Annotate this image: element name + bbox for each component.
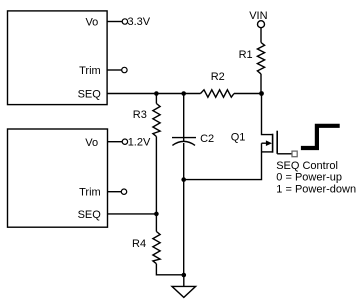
capacitor C2 top plate	[172, 137, 196, 139]
svg-text:Trim: Trim	[79, 187, 101, 199]
wire source node down to ground rail	[183, 180, 185, 275]
wire Vo pin block 1	[107, 21, 122, 23]
svg-text:C2: C2	[200, 133, 214, 145]
label C2	[200, 133, 214, 145]
svg-text:Vo: Vo	[85, 17, 98, 29]
pin label SEQ (block 1)	[78, 89, 102, 101]
label 3.3V	[128, 16, 151, 28]
terminal circle Trim block 1 (open)	[122, 67, 127, 72]
resistor R3 (vertical zigzag)	[153, 104, 160, 137]
terminal circle 3.3V output	[122, 19, 127, 24]
label Q1	[231, 131, 246, 143]
wire SEQ bus from block 1 to R2	[107, 93, 201, 95]
label VIN	[249, 10, 267, 22]
label R4	[132, 238, 146, 250]
svg-text:Q1: Q1	[231, 131, 246, 143]
junction dot node C (R1 / R2 / Q1 drain)	[259, 91, 264, 96]
SEQ control step waveform	[301, 126, 340, 148]
svg-text:R2: R2	[211, 71, 225, 83]
svg-text:1 = Power-down: 1 = Power-down	[276, 183, 356, 195]
terminal circle Trim block 2 (open)	[121, 189, 126, 194]
label R3	[133, 109, 147, 121]
wire Q1 drain (node C down and into channel)	[262, 94, 273, 135]
regulator block 1 (3.3V module)	[8, 11, 108, 105]
pin label Vo (block 2)	[85, 137, 98, 149]
capacitor C2 curved bottom plate	[172, 141, 195, 145]
wire C2 bottom to source node	[183, 143, 185, 180]
junction dot node A (SEQ bus / R3)	[154, 91, 159, 96]
wire node D down to R4	[155, 214, 157, 232]
wire Trim pin block 1	[107, 69, 122, 71]
junction dot node B (SEQ bus / C2)	[181, 91, 186, 96]
svg-text:1.2V: 1.2V	[128, 137, 151, 149]
pin label Vo (block 1)	[85, 17, 98, 29]
svg-text:SEQ Control: SEQ Control	[276, 160, 338, 172]
svg-text:SEQ: SEQ	[78, 209, 102, 221]
svg-text:VIN: VIN	[249, 10, 267, 22]
wire gate to SEQ control terminal	[277, 153, 291, 155]
wire Vo pin block 2	[107, 141, 122, 143]
svg-text:R3: R3	[133, 109, 147, 121]
svg-text:Trim: Trim	[79, 65, 101, 77]
svg-text:Vo: Vo	[85, 137, 98, 149]
wire R1 to drain node	[260, 74, 262, 94]
wire SEQ pin block 2 to divider node	[107, 213, 156, 215]
transistor Q1 channel bar	[272, 134, 274, 153]
svg-text:R4: R4	[132, 238, 146, 250]
label R2	[211, 71, 225, 83]
terminal circle 1.2V output	[122, 139, 127, 144]
regulator block 2 (1.2V module)	[8, 129, 108, 227]
svg-text:3.3V: 3.3V	[128, 16, 151, 28]
junction dot node E (C2 / Q1 source return)	[181, 177, 186, 182]
junction dot node D (block 2 SEQ / R3-R4 divider)	[154, 212, 159, 217]
wire VIN to R1	[260, 28, 262, 43]
transistor Q1 body wire with arrow	[262, 140, 273, 146]
SEQ control terminal square	[292, 151, 297, 157]
wire R2 to drain node	[234, 93, 262, 95]
label 0 = Power-up	[276, 171, 342, 183]
wire Q1 source down and left to node E	[184, 143, 262, 179]
label R1	[239, 49, 253, 61]
terminal circle VIN	[258, 21, 265, 28]
wire R3 to node D	[155, 137, 157, 214]
wire node B down to C2 top plate	[183, 94, 185, 142]
pin label SEQ (block 2)	[78, 209, 102, 221]
label SEQ Control	[276, 160, 338, 172]
svg-text:0 = Power-up: 0 = Power-up	[276, 171, 342, 183]
svg-text:SEQ: SEQ	[78, 89, 102, 101]
wire ground rail to ground symbol	[183, 275, 185, 286]
wire node A down to R3	[155, 94, 157, 104]
resistor R4 (vertical zigzag)	[153, 232, 160, 264]
junction dot node F (ground rail)	[182, 273, 187, 278]
transistor Q1 gate bar	[276, 131, 278, 154]
label 1 = Power-down	[276, 183, 356, 195]
label 1.2V	[128, 137, 151, 149]
svg-text:R1: R1	[239, 49, 253, 61]
resistor R1 (vertical zigzag)	[257, 43, 264, 74]
resistor R2 (horizontal zigzag)	[201, 90, 235, 97]
ground symbol	[172, 286, 196, 297]
transistor Q1 source wire	[262, 151, 273, 153]
wire R4 bottom to ground rail	[156, 264, 183, 275]
pin label Trim (block 2)	[79, 187, 101, 199]
wire Trim pin block 2	[107, 191, 121, 193]
pin label Trim (block 1)	[79, 65, 101, 77]
